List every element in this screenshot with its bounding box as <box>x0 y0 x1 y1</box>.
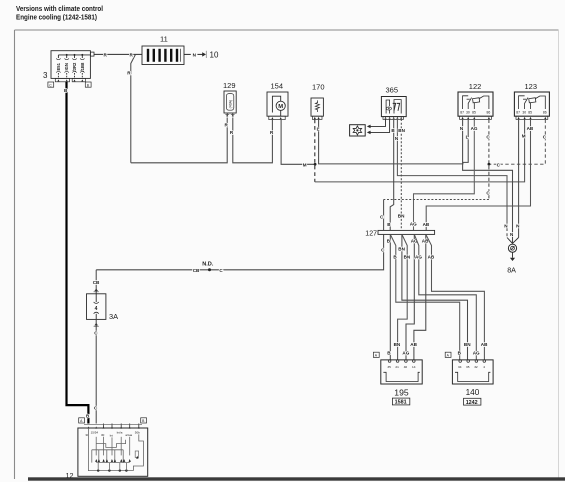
svg-text:R: R <box>130 53 134 58</box>
wire B 127 to 195 pin 35 <box>387 234 392 360</box>
svg-text:B: B <box>458 350 462 355</box>
svg-text:CB: CB <box>93 280 100 285</box>
svg-text:86: 86 <box>543 110 547 114</box>
svg-text:85: 85 <box>472 110 476 114</box>
svg-text:M: M <box>303 162 307 167</box>
svg-text:140: 140 <box>466 388 480 397</box>
svg-text:3: 3 <box>43 71 48 80</box>
wire AB 127 to 195 pin 14 <box>410 234 429 360</box>
wire C from 127 down then left to N.D. splice <box>96 234 385 269</box>
svg-text:AG: AG <box>473 350 480 355</box>
wire AB branch 127 to 140 pin 4 <box>426 234 488 360</box>
title <box>16 4 103 22</box>
svg-text:1242: 1242 <box>466 400 478 406</box>
wire B branch 127 to 140 pin 34 <box>390 234 461 360</box>
fuse 3A <box>87 294 106 320</box>
wire to node 10 with arrow <box>184 51 206 58</box>
svg-text:E51: E51 <box>56 62 61 70</box>
svg-text:N: N <box>504 224 508 229</box>
svg-text:a/tua: a/tua <box>125 433 132 437</box>
splice N.D. <box>193 262 224 273</box>
wire AG 127 to 195 pin 40 <box>402 234 418 360</box>
12 terminal labels <box>85 430 140 437</box>
svg-text:N.D.: N.D. <box>202 262 214 268</box>
svg-text:85: 85 <box>528 110 532 114</box>
wire BN from 365 pin5 to connector 127 <box>398 119 406 230</box>
140 pin numbers <box>458 365 485 369</box>
boxed B tag above 12 <box>141 418 147 423</box>
wire AG relay122 pin85 to connector 127 <box>410 120 478 231</box>
svg-text:A: A <box>80 419 83 423</box>
svg-text:154: 154 <box>271 82 284 91</box>
svg-text:N: N <box>510 232 514 237</box>
boxed A tag for 140 <box>445 352 451 357</box>
fan motor 154 <box>267 92 288 120</box>
svg-text:/3R2: /3R2 <box>72 62 77 72</box>
svg-text:C: C <box>543 134 547 139</box>
svg-text:A: A <box>447 354 450 358</box>
fuse 11 <box>142 46 184 65</box>
connector 127 (bar) <box>365 230 434 237</box>
relay 123 pin numbers <box>516 110 547 114</box>
svg-text:AG: AG <box>402 350 409 355</box>
wire R fuse11 to 129 pin1 <box>131 118 229 163</box>
wire R from U3 to fuse 11 <box>94 53 142 163</box>
svg-text:1581: 1581 <box>395 400 407 406</box>
control unit 195 <box>381 360 422 384</box>
svg-text:30: 30 <box>101 433 105 437</box>
svg-text:AG: AG <box>410 221 417 226</box>
svg-text:C: C <box>49 83 52 87</box>
12 contact arrows row <box>95 456 138 462</box>
svg-text:AB: AB <box>481 342 488 347</box>
svg-text:AB: AB <box>527 126 534 131</box>
boxed A tag above U12 <box>79 418 85 423</box>
relay 122 <box>458 92 493 119</box>
svg-text:R: R <box>104 53 108 58</box>
svg-text:R: R <box>270 130 274 135</box>
svg-text:C: C <box>486 191 490 196</box>
svg-text:AB: AB <box>428 254 435 259</box>
svg-text:15/54: 15/54 <box>91 430 99 434</box>
svg-text:BN: BN <box>398 214 405 219</box>
svg-text:C: C <box>486 134 490 139</box>
svg-text:35: 35 <box>387 365 391 369</box>
wire N relay123 pin87 to ground 8A <box>516 120 520 238</box>
svg-text:BN: BN <box>464 342 471 347</box>
svg-text:122: 122 <box>469 82 482 91</box>
pressure switch 365 <box>381 97 406 120</box>
svg-text:87: 87 <box>460 110 464 114</box>
svg-text:Engine cooling (1242-1581): Engine cooling (1242-1581) <box>16 13 98 22</box>
ignition switch 12 top pins <box>84 424 142 429</box>
svg-text:BN: BN <box>398 128 405 133</box>
U3 connector C tag <box>48 82 54 87</box>
svg-text:B: B <box>391 128 395 133</box>
svg-text:BN: BN <box>404 254 411 259</box>
wire AB relay123 pin85 to connector 127 <box>423 120 534 231</box>
svg-text:11: 11 <box>160 35 168 44</box>
svg-text:123: 123 <box>525 82 538 91</box>
svg-text:IGN: IGN <box>64 63 69 70</box>
svg-text:AG: AG <box>415 254 422 259</box>
svg-text:B: B <box>87 83 90 87</box>
A/C indicator (snowflake) box <box>350 125 366 136</box>
wire L from 170 pin2 to relay 122 pin 30 <box>317 119 469 163</box>
svg-text:30: 30 <box>466 110 470 114</box>
svg-text:C: C <box>381 247 385 252</box>
svg-text:Int/a: Int/a <box>117 430 123 434</box>
12 lower bus with splices <box>96 463 130 472</box>
wire N (dashed) from 170 pin1 down to splice then to relay 123 pin 30 <box>315 119 526 181</box>
wire B (thick) from U3 to ignition switch U12 <box>64 82 90 424</box>
arrow wire 365 pin1 to indicator <box>367 119 386 128</box>
svg-text:34: 34 <box>458 365 462 369</box>
arrow wire 365 pin2 to indicator <box>367 119 390 134</box>
svg-text:30: 30 <box>522 110 526 114</box>
ignition switch 12 <box>78 428 148 476</box>
svg-text:N: N <box>395 136 399 141</box>
wire N from 365 pin4 to ground 8A <box>395 119 508 238</box>
svg-text:3A: 3A <box>109 312 118 321</box>
svg-text:M: M <box>278 104 283 110</box>
splice junction on wire N/M <box>314 163 317 166</box>
boxed A tag for 195 <box>373 352 379 357</box>
svg-text:129: 129 <box>223 81 236 90</box>
junction unit U3 (fusebox) <box>51 51 90 82</box>
svg-text:86: 86 <box>487 110 491 114</box>
svg-text:M: M <box>522 134 526 139</box>
svg-text:32: 32 <box>474 365 478 369</box>
wire BN 127 to 140 pin 35 <box>398 234 471 360</box>
svg-text:/1B8: /1B8 <box>80 62 85 72</box>
svg-text:(40A): (40A) <box>229 100 233 109</box>
svg-text:14: 14 <box>412 365 416 369</box>
svg-text:C: C <box>94 331 98 336</box>
svg-text:C: C <box>497 162 501 167</box>
svg-text:Int: Int <box>110 434 114 438</box>
svg-text:195: 195 <box>394 387 409 397</box>
wire CB from N.D. splice to fuse 3A <box>93 270 100 294</box>
U3 fuse value labels (rotated) <box>56 62 85 72</box>
svg-text:C: C <box>219 268 223 273</box>
svg-text:CB: CB <box>193 268 200 273</box>
svg-text:N: N <box>193 53 197 58</box>
U3 connector B tag <box>85 82 91 87</box>
svg-text:B: B <box>393 254 397 259</box>
svg-text:8A: 8A <box>507 265 516 274</box>
svg-text:10: 10 <box>210 51 219 60</box>
svg-text:A: A <box>375 354 378 358</box>
wire AG branch 127 to 140 pin 32 <box>414 234 480 360</box>
control unit 140 <box>452 360 493 384</box>
resistor 170 <box>311 98 323 119</box>
svg-text:4: 4 <box>483 365 485 369</box>
svg-text:N: N <box>460 126 464 131</box>
svg-text:127: 127 <box>365 231 377 238</box>
svg-text:365: 365 <box>386 86 399 95</box>
195 variant tag 1581 <box>392 398 409 406</box>
svg-text:87: 87 <box>516 110 520 114</box>
wire C from fuse 3A to ignition switch 12 <box>94 319 99 423</box>
svg-text:170: 170 <box>312 83 325 92</box>
svg-text:AG: AG <box>471 126 478 131</box>
svg-text:21: 21 <box>395 365 399 369</box>
svg-text:50b: 50b <box>135 430 140 434</box>
svg-text:BN: BN <box>398 246 405 251</box>
wire C (dashed) relay122 pin86 + relay123 pin86 junction <box>380 120 547 231</box>
svg-text:4: 4 <box>95 306 98 312</box>
wire R 129 pin2 to motor 154 pin1 <box>230 118 274 163</box>
ground 8A <box>507 238 519 262</box>
svg-text:40: 40 <box>404 365 408 369</box>
svg-text:L: L <box>317 127 320 132</box>
svg-text:35: 35 <box>466 365 470 369</box>
195 pin numbers <box>387 365 415 369</box>
svg-text:AB: AB <box>410 342 417 347</box>
svg-text:B: B <box>142 419 145 423</box>
wire B from 365 pin3 to connector 127 <box>387 119 395 230</box>
relay 122 pin numbers <box>460 110 490 114</box>
wire N relay122 pin87 to ground 8A <box>460 120 514 243</box>
fuse 129 (40A) <box>224 91 236 117</box>
svg-text:R: R <box>225 123 229 128</box>
svg-text:C: C <box>94 406 98 411</box>
svg-text:12: 12 <box>66 471 74 480</box>
U3 output connector square to wire R <box>90 52 94 56</box>
svg-text:BN: BN <box>394 342 401 347</box>
relay 123 <box>514 92 549 119</box>
wire M from 154 pin2 to splice <box>281 120 315 168</box>
12 internal wiring <box>88 428 143 471</box>
wire BN branch 127 to 195 pin 21 <box>394 234 411 360</box>
svg-text:AB: AB <box>423 222 430 227</box>
svg-text:L: L <box>466 135 469 140</box>
svg-text:N: N <box>516 224 520 229</box>
140 variant tag 1242 <box>464 398 481 406</box>
